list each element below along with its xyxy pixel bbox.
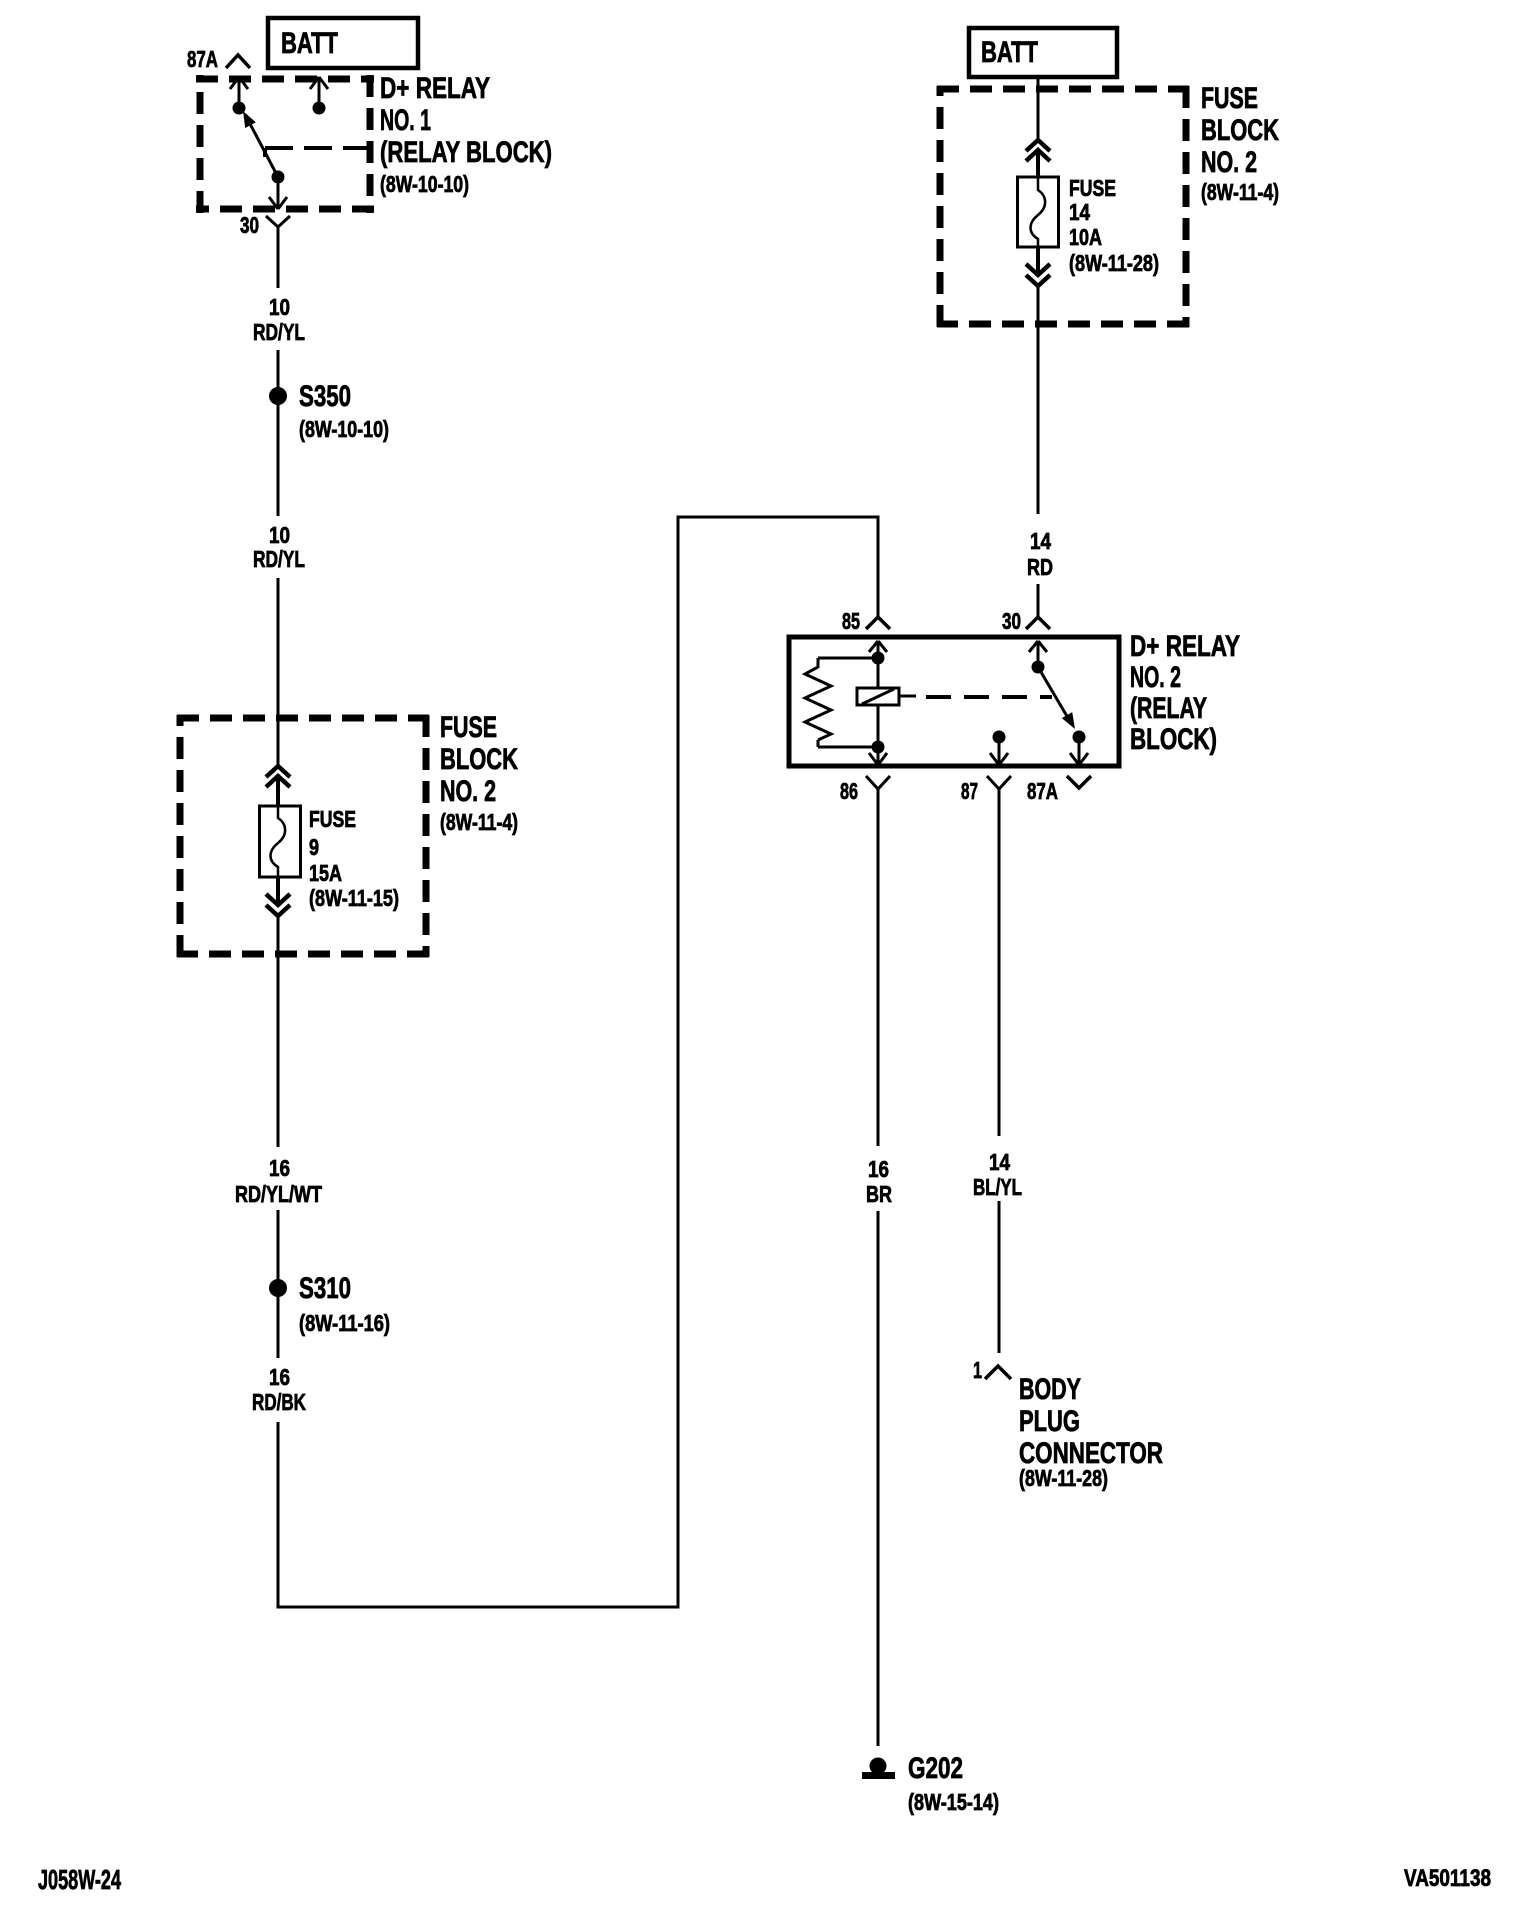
wire into fuse block no.2 (left) <box>277 578 280 766</box>
relay block D+ RELAY NO.1 dashed outline <box>196 75 374 213</box>
wire through coil <box>877 658 880 747</box>
svg-text:VA501138: VA501138 <box>1404 1865 1491 1892</box>
coil linkage dashed line (relay K1) <box>265 148 370 157</box>
relay K2 coil <box>857 688 916 705</box>
node BATT (right feed box) <box>969 28 1117 77</box>
node dot BATT feed pin <box>313 102 326 115</box>
node dot pin 87A <box>233 102 246 115</box>
wire 16 RD/BK run to relay K2 coil <box>278 517 878 1607</box>
svg-text:BLOCK: BLOCK <box>1201 114 1279 147</box>
node dot pin 30 (relay K1) <box>272 171 285 184</box>
svg-text:(8W-11-28): (8W-11-28) <box>1069 250 1159 276</box>
svg-text:87A: 87A <box>1027 778 1058 804</box>
svg-text:(RELAY: (RELAY <box>1130 692 1207 725</box>
svg-text:D+ RELAY: D+ RELAY <box>380 72 490 105</box>
pin 87 terminal arrow <box>990 737 1008 765</box>
svg-text:(8W-10-10): (8W-10-10) <box>380 171 469 197</box>
splice S310 label <box>299 1272 390 1336</box>
svg-text:10A: 10A <box>1069 224 1102 250</box>
svg-text:87: 87 <box>961 778 978 804</box>
svg-text:RD/BK: RD/BK <box>252 1389 306 1415</box>
svg-text:(8W-11-28): (8W-11-28) <box>1019 1465 1108 1491</box>
svg-text:D+ RELAY: D+ RELAY <box>1130 630 1240 663</box>
svg-text:FUSE: FUSE <box>440 711 497 744</box>
pin 86 female connector Y <box>866 776 890 808</box>
svg-text:BLOCK: BLOCK <box>440 743 518 776</box>
pin 85 female connector Y <box>866 617 890 629</box>
pin 85 terminal arrow <box>869 641 887 654</box>
svg-text:1: 1 <box>973 1357 982 1383</box>
wire into relay K2 pin 30 <box>1037 584 1040 618</box>
fuse block no.2 (left) label <box>440 711 518 835</box>
pin 87A terminal arrow (relay K2) <box>1070 737 1088 765</box>
svg-text:86: 86 <box>840 778 858 804</box>
relay K1 label D+ RELAY NO. 1 (RELAY BLOCK) (8W-10-10) <box>380 72 552 197</box>
svg-text:85: 85 <box>842 608 860 634</box>
wire 14 RD down from fuse block <box>1037 286 1040 514</box>
svg-text:(8W-11-4): (8W-11-4) <box>440 809 518 835</box>
svg-text:FUSE: FUSE <box>1201 82 1258 115</box>
board edge double chevron down (fuse 14 out) <box>1026 264 1050 286</box>
svg-text:BATT: BATT <box>281 27 338 60</box>
svg-text:BLOCK): BLOCK) <box>1130 723 1217 756</box>
splice S350 dot <box>269 387 287 405</box>
pin 30 female connector Y (relay K2) <box>1026 617 1050 629</box>
wire 14 BL/YL upper segment <box>998 808 1001 1136</box>
svg-text:RD/YL: RD/YL <box>253 546 305 572</box>
board edge double chevron down (fuse 9 out) <box>266 894 290 916</box>
relay K2 label D+ RELAY NO. 2 (RELAY BLOCK) <box>1130 630 1240 756</box>
svg-text:(8W-11-15): (8W-11-15) <box>309 885 399 911</box>
wire 16 BR to ground <box>877 1211 880 1746</box>
svg-text:G202: G202 <box>908 1752 963 1785</box>
svg-text:(8W-11-16): (8W-11-16) <box>299 1310 390 1336</box>
svg-text:30: 30 <box>240 212 259 238</box>
fuse F14 value label FUSE 14 10A (8W-11-28) <box>1069 175 1159 276</box>
svg-text:RD/YL: RD/YL <box>253 319 305 345</box>
svg-text:S310: S310 <box>299 1272 351 1305</box>
svg-text:PLUG: PLUG <box>1019 1405 1080 1438</box>
splice S350 label <box>299 380 389 442</box>
svg-text:15A: 15A <box>309 860 342 886</box>
wire below S350 <box>277 404 280 516</box>
relay K2 solid outline (D+ RELAY NO. 2) <box>789 637 1119 766</box>
wire into S310 <box>277 1210 280 1281</box>
svg-text:FUSE: FUSE <box>309 806 356 832</box>
svg-text:16: 16 <box>269 1364 290 1390</box>
pin 30 terminal arrow (relay K2) <box>1029 641 1047 663</box>
node dot pin 87 <box>993 731 1006 744</box>
pin 87A terminal arrow (relay K1) <box>230 77 248 104</box>
svg-text:(RELAY BLOCK): (RELAY BLOCK) <box>380 136 552 169</box>
svg-text:14: 14 <box>1069 199 1090 225</box>
svg-text:10: 10 <box>269 294 290 320</box>
wire 16 RD/YL/WT from fuse block <box>277 916 280 1147</box>
fuse block no.2 (right) label <box>1201 82 1279 205</box>
pin 87 female connector Y <box>987 776 1011 808</box>
node dot pin 85 <box>872 652 885 665</box>
BATT feed terminal arrow (relay K1) <box>310 77 328 104</box>
board edge double chevron up (fuse 9 feed) <box>266 766 290 787</box>
wire BATT to fuse 14 <box>1037 77 1040 140</box>
svg-text:16: 16 <box>269 1155 290 1181</box>
fuse F9 body <box>260 806 301 877</box>
node dot pin 30 (relay K2) <box>1032 661 1045 674</box>
svg-text:(8W-11-4): (8W-11-4) <box>1201 179 1279 205</box>
svg-text:87A: 87A <box>187 46 218 72</box>
resistor (relay K2 coil suppression) <box>805 658 878 747</box>
pin 30 female connector Y <box>266 216 290 248</box>
ground G202 label <box>908 1752 999 1815</box>
body plug connector label <box>1019 1373 1163 1491</box>
svg-text:14: 14 <box>989 1149 1010 1175</box>
node dot pin 87A (relay K2) <box>1073 731 1086 744</box>
pin 87A female terminal chevron <box>226 55 250 68</box>
wire into S350 <box>277 350 280 389</box>
svg-text:NO. 2: NO. 2 <box>440 775 496 808</box>
node dot pin 86 <box>872 741 885 754</box>
board edge double chevron up (fuse 14 feed) <box>1026 140 1050 161</box>
wire below S310 <box>277 1296 280 1358</box>
svg-text:NO. 1: NO. 1 <box>380 104 431 137</box>
svg-text:(8W-10-10): (8W-10-10) <box>299 416 389 442</box>
ground G202 symbol <box>862 1758 895 1780</box>
svg-text:14: 14 <box>1030 528 1051 554</box>
fuse F14 body <box>1018 177 1059 247</box>
coil linkage dashed line (relay K2) <box>926 695 1052 699</box>
svg-text:NO. 2: NO. 2 <box>1130 661 1181 694</box>
body plug connector pin 1 chevron <box>985 1366 1011 1379</box>
splice S310 dot <box>269 1279 287 1297</box>
svg-text:RD/YL/WT: RD/YL/WT <box>235 1181 322 1207</box>
svg-text:FUSE: FUSE <box>1069 175 1116 201</box>
switch arm relay K1 <box>238 108 278 177</box>
fuse block no.2 (left) dashed outline <box>177 715 429 957</box>
svg-text:10: 10 <box>269 522 290 548</box>
fuse block no.2 (right) dashed outline <box>937 86 1189 327</box>
pin 30 terminal arrow (relay K1) <box>269 181 287 209</box>
svg-text:16: 16 <box>868 1156 889 1182</box>
svg-text:J058W-24: J058W-24 <box>38 1864 121 1895</box>
svg-text:(8W-15-14): (8W-15-14) <box>908 1789 999 1815</box>
svg-text:NO. 2: NO. 2 <box>1201 146 1257 179</box>
wire 10 RD/YL upper segment <box>277 248 280 288</box>
svg-text:BL/YL: BL/YL <box>973 1174 1022 1200</box>
svg-text:30: 30 <box>1002 608 1021 634</box>
svg-text:BODY: BODY <box>1019 1373 1081 1406</box>
svg-text:9: 9 <box>309 834 319 860</box>
pin 86 terminal arrow <box>869 747 887 765</box>
svg-text:S350: S350 <box>299 380 351 413</box>
pin 87A female connector chevron (relay K2) <box>1067 776 1091 788</box>
wire 14 BL/YL to body plug connector <box>998 1201 1001 1353</box>
svg-text:BR: BR <box>866 1181 892 1207</box>
wire 16 BR upper segment <box>877 808 880 1146</box>
svg-text:RD: RD <box>1027 554 1053 580</box>
svg-text:BATT: BATT <box>981 36 1038 69</box>
switch arm relay K2 <box>1038 667 1080 732</box>
fuse F9 value label FUSE 9 15A (8W-11-15) <box>309 806 399 911</box>
node BATT (left feed box) <box>268 18 418 68</box>
